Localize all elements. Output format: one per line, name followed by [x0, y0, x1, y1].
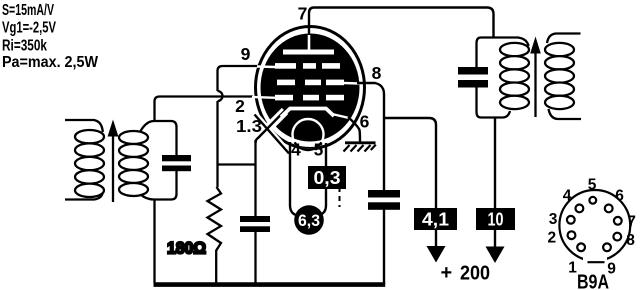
- SECTION: right IF transformer: [458, 34, 581, 120]
- wire heater pin 5: [322, 143, 327, 214]
- pin 9 internal lead (white): [257, 65, 276, 68]
- socket pin 8 hole: [613, 233, 621, 241]
- current arrow anode supply: [486, 230, 505, 263]
- wire secondary bottom stub: [549, 109, 582, 119]
- socket outline circle: [559, 190, 630, 261]
- wire cathode tie horizontal: [218, 163, 256, 165]
- svg-text:7: 7: [298, 4, 308, 24]
- inductor L1 primary winding: [75, 130, 104, 197]
- chassis ground symbol at pin 6: [344, 143, 376, 152]
- wire heater pin 4: [290, 142, 296, 215]
- svg-text:+: +: [441, 262, 453, 284]
- anode plate bar: [283, 50, 334, 55]
- wire tank bottom to ground rail: [153, 200, 155, 284]
- wire tank left side top: [477, 38, 482, 68]
- pin 2 internal lead (white): [252, 96, 276, 99]
- inductor L2 secondary winding: [119, 131, 148, 196]
- capacitor C2 cathode bypass: [240, 216, 270, 232]
- svg-text:Vg1=-2,5V: Vg1=-2,5V: [2, 20, 56, 37]
- wire pin 8 screen lead: [357, 83, 384, 190]
- wire secondary top stub: [547, 34, 581, 44]
- wire resistor bottom lead to rail: [215, 255, 217, 283]
- capacitor C3 screen decoupling: [368, 190, 400, 210]
- wire input stub bottom: [65, 192, 103, 200]
- current label box 4,1: [414, 208, 457, 230]
- socket key gap (white): [583, 257, 607, 266]
- socket pin 5 hole: [589, 197, 596, 204]
- grid g2 dashed row: [277, 80, 344, 86]
- ground rail: [154, 282, 386, 287]
- socket pin 3 hole: [567, 216, 575, 224]
- wire tank bottom: [140, 171, 177, 200]
- svg-text:4,1: 4,1: [422, 210, 449, 230]
- wire anode pin 7 top lead: [309, 8, 494, 38]
- svg-text:10: 10: [488, 210, 504, 230]
- SECTION: data text block: [2, 2, 99, 71]
- inductor L4 secondary winding: [545, 43, 574, 109]
- heater loop (white inside envelope): [293, 119, 324, 150]
- heater voltage circle 6,3: [294, 205, 324, 235]
- socket pin 1 hole: [577, 243, 585, 251]
- wire anode supply branch: [494, 118, 496, 209]
- svg-text:6: 6: [615, 188, 624, 205]
- svg-text:180Ω: 180Ω: [167, 239, 206, 258]
- wire tank bottom: [481, 111, 510, 118]
- pentode V1 internal structure background: [261, 34, 360, 142]
- SECTION: heater branch: [290, 142, 346, 235]
- wire grid g1 from tank to tube pin 2: [155, 97, 254, 102]
- grid g1 dashed row: [275, 95, 344, 101]
- SECTION: left IF transformer: [65, 102, 191, 284]
- inductor L3 primary winding: [500, 43, 529, 109]
- wire tank top: [140, 121, 177, 155]
- pin 8 internal lead (white): [344, 82, 359, 85]
- current label box 10: [476, 208, 515, 230]
- svg-text:B9A: B9A: [577, 271, 609, 290]
- wire input stub top: [65, 120, 103, 132]
- svg-text:5: 5: [588, 177, 597, 194]
- SECTION: cathode network: [154, 66, 386, 285]
- svg-text:Pa=max. 2,5W: Pa=max. 2,5W: [2, 54, 99, 71]
- tuning arrow of left transformer: [108, 120, 119, 203]
- heater loop black arc below envelope: [295, 142, 322, 150]
- capacitor C1 tank capacitor: [162, 155, 191, 171]
- wire pin 1.3 cathode lead white margin: [255, 111, 290, 154]
- wire tank top: [481, 38, 529, 47]
- wire pin 1 lead crossing to heater side: [255, 115, 290, 154]
- svg-text:8: 8: [372, 63, 382, 83]
- grid g3 dashed row: [275, 63, 340, 69]
- resistor 180 ohm cathode resistor: [208, 187, 222, 255]
- svg-text:6: 6: [360, 112, 370, 132]
- wire pin 1.3 lead to bypass cap: [256, 110, 287, 144]
- wire pin 9 horizontal: [218, 66, 259, 91]
- svg-text:8: 8: [626, 232, 635, 249]
- current arrow screen supply: [427, 230, 446, 263]
- svg-text:0,3: 0,3: [314, 168, 341, 188]
- SECTION: B9A socket: [547, 177, 635, 290]
- socket pin 7 hole: [614, 217, 622, 225]
- anode plate lead (white): [308, 35, 311, 50]
- socket pin 2 hole: [568, 231, 576, 239]
- svg-text:7: 7: [627, 214, 636, 231]
- svg-text:200: 200: [460, 263, 490, 285]
- cathode bar (white): [281, 109, 334, 118]
- svg-text:9: 9: [241, 44, 251, 64]
- capacitor C4 tank capacitor: [458, 67, 488, 88]
- svg-text:1: 1: [568, 260, 577, 277]
- tuning arrow of right transformer: [530, 37, 541, 118]
- svg-text:1.3: 1.3: [236, 116, 262, 136]
- wire tap from tank top to grid line: [153, 102, 155, 122]
- svg-text:S=15mA/V: S=15mA/V: [2, 2, 54, 19]
- wire pin 9 vertical down to resistor: [216, 101, 218, 187]
- SECTION: tube: [235, 4, 493, 191]
- wire fragment right of 0,3 box (scan artifact): [339, 187, 341, 207]
- socket pin 9 hole: [603, 243, 611, 251]
- svg-text:2: 2: [235, 96, 245, 116]
- socket pin 4 hole: [576, 205, 584, 213]
- wire hop (no connection) over grid wire: [218, 91, 223, 101]
- wire bypass capacitor to rail: [254, 232, 256, 283]
- svg-text:2: 2: [547, 230, 556, 247]
- pentode V1 envelope: [256, 27, 365, 149]
- svg-text:5: 5: [314, 140, 324, 160]
- socket key chord: [588, 261, 605, 263]
- svg-text:4: 4: [563, 188, 572, 205]
- wire pin 6 shield lead: [348, 117, 360, 142]
- wire screen feed horizontal: [384, 118, 436, 208]
- svg-text:4: 4: [291, 140, 301, 160]
- current label box 0,3: [308, 166, 346, 189]
- wire tank left side bottom: [477, 88, 482, 118]
- wire cathode vertical to bypass capacitor: [254, 140, 256, 216]
- svg-text:Ri=350k: Ri=350k: [2, 38, 47, 55]
- pin 6 internal lead (white): [332, 114, 349, 118]
- wire screen cap to rail: [383, 209, 385, 284]
- svg-text:6,3: 6,3: [298, 212, 320, 230]
- svg-text:3: 3: [549, 211, 558, 228]
- SECTION: screen/anode branches: [368, 118, 515, 285]
- socket pin 6 hole: [605, 205, 613, 213]
